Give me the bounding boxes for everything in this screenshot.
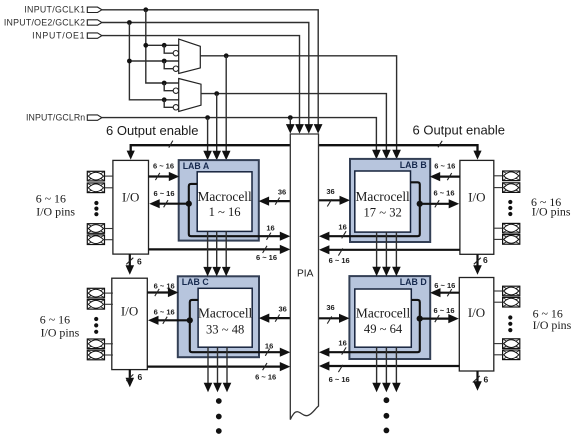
junction mux1 input 2 on OE2 column (127, 59, 132, 64)
tick 6~16 bottom-right I/O to PIA (338, 365, 342, 372)
svg-text:INPUT/GCLRn: INPUT/GCLRn (26, 112, 85, 122)
macrocell box Macrocell 33-48 33 ~ 48 (198, 288, 252, 347)
svg-text:16: 16 (338, 339, 346, 348)
svg-text:I/O: I/O (121, 303, 138, 318)
wire 6~16 right I/O to PIA (328, 249, 460, 251)
I/O block bottom-right (459, 278, 494, 372)
junction mux1 input 1 branch (162, 43, 167, 48)
svg-text:I/O: I/O (468, 305, 485, 320)
svg-text:Macrocell: Macrocell (356, 189, 411, 204)
continuation dots pads bottom-left (94, 317, 98, 321)
wire 6~16 LAB B to right I/O (420, 203, 450, 205)
arrow 6~16 into LAB B (430, 172, 441, 181)
arrow mux1 output into LAB A (222, 151, 231, 161)
arrow 6~16 into LAB D (430, 288, 441, 297)
wire mux1 output to LAB B column (200, 56, 396, 150)
I/O pad top-left 3 (87, 224, 113, 234)
arrow GCLRn into LAB B (372, 150, 381, 160)
svg-text:6 ~ 16: 6 ~ 16 (153, 189, 174, 198)
arrow into LAB D column 2 (382, 267, 391, 277)
svg-text:6 ~ 16: 6 ~ 16 (40, 312, 70, 326)
svg-text:33 ~ 48: 33 ~ 48 (206, 323, 244, 337)
arrow below LAB C column 3 (223, 383, 232, 393)
I/O pad bottom-right 2 (494, 297, 520, 307)
input pin INPUT/OE2/GCLK2 (87, 20, 102, 25)
wire GCLK1 horizontal to PIA column (102, 10, 318, 125)
svg-text:36: 36 (326, 187, 334, 196)
svg-text:LAB A: LAB A (183, 161, 210, 171)
I/O pad top-right 3 (494, 223, 520, 233)
svg-text:I/O pins: I/O pins (533, 318, 572, 332)
arrow 36 into LAB D (339, 314, 350, 323)
arrow 6~16 into LAB C (168, 288, 179, 297)
svg-text:6 ~ 16: 6 ~ 16 (154, 282, 175, 291)
I/O block top-right (460, 160, 494, 254)
svg-text:Macrocell: Macrocell (356, 306, 411, 321)
svg-text:INPUT/OE1: INPUT/OE1 (32, 30, 85, 40)
mux2 inversion bubble 1 (173, 88, 178, 93)
wire 6~16 right I/O to LAB B (438, 176, 460, 178)
tick 6~16 I/O to LAB D (447, 289, 451, 296)
arrow bus into right I/O (473, 151, 481, 160)
svg-text:36: 36 (278, 187, 286, 196)
arrow bottom-left I/O output (126, 378, 135, 388)
tick 16 LAB B (342, 231, 346, 238)
wire bottom-left I/O output 6 (129, 370, 131, 379)
svg-text:36: 36 (326, 303, 334, 312)
junction mux2 input 1 branch (162, 81, 167, 86)
input pin INPUT/GCLRn (87, 115, 102, 120)
tick 6 left chain (126, 258, 133, 265)
wire 36 PIA to LAB D (319, 317, 342, 319)
macrocell box Macrocell 17-32 17 ~ 32 (355, 171, 411, 232)
mux 2 (output enable select) (179, 79, 201, 112)
svg-text:I/O pins: I/O pins (36, 205, 75, 219)
I/O pad bottom-left 3 (87, 339, 113, 349)
arrow 6~16 into right I/O (449, 199, 460, 208)
tick 6~16 bottom-left I/O to PIA (263, 363, 267, 370)
junction on LAB A bracket (186, 201, 192, 207)
arrow 16 LAB B to PIA (319, 232, 330, 241)
svg-text:Macrocell: Macrocell (198, 306, 253, 321)
tick 36 PIA to LAB D (327, 316, 331, 323)
I/O pad top-left 4 (87, 235, 113, 245)
tick 6 bottom-right (473, 376, 480, 383)
wire 36 PIA to LAB B (319, 199, 342, 201)
svg-text:16: 16 (266, 224, 274, 233)
wire 6~16 LAB A to I/O (158, 203, 189, 205)
tick 36 PIA to LAB C (275, 315, 279, 322)
wire 6~16 bottom-left I/O to PIA (147, 366, 281, 368)
svg-text:I/O: I/O (122, 189, 139, 204)
arrow below LAB C column 1 (204, 383, 213, 393)
input pin INPUT/GCLK1 (87, 7, 102, 12)
tick 6~16 LAB D to I/O (435, 315, 439, 322)
tick 16 LAB A (267, 233, 271, 240)
I/O block bottom-left (112, 278, 148, 369)
wire GCLRn branch down to PIA (289, 118, 291, 125)
wire 6~16 I/O to LAB C (147, 291, 169, 293)
wire 36 PIA to LAB C (267, 317, 290, 319)
I/O block top-left (113, 160, 149, 254)
wire LAB B macrocell outputs down to LAB D (376, 232, 378, 267)
I/O pad bottom-right 4 (494, 350, 520, 360)
macrocell box Macrocell 49-64 49 ~ 64 (355, 289, 412, 347)
arrow into bottom-left I/O (126, 265, 135, 275)
svg-text:6 Output enable: 6 Output enable (413, 122, 506, 137)
svg-text:INPUT/GCLK1: INPUT/GCLK1 (24, 5, 85, 15)
tick 6~16 right I/O to LAB B (447, 173, 451, 180)
macrocell bracket LAB C with 16 line to PIA (190, 300, 281, 352)
svg-text:Macrocell: Macrocell (197, 189, 252, 204)
svg-text:6 ~ 16: 6 ~ 16 (36, 192, 66, 206)
svg-text:6: 6 (138, 372, 143, 382)
macrocell bracket LAB A with 16 line to PIA (189, 184, 281, 236)
svg-text:6 Output enable: 6 Output enable (106, 123, 199, 138)
junction OE2 to mux column (127, 20, 132, 25)
macrocell bracket LAB D with 16 line to PIA (328, 300, 420, 352)
arrow 6~16 into LAB A (169, 172, 180, 181)
svg-text:LAB D: LAB D (400, 277, 427, 287)
output enable bus (131, 145, 478, 152)
arrow 16 LAB A to PIA (280, 232, 291, 241)
arrow 6~16 left I/O into PIA (280, 245, 291, 254)
svg-text:LAB B: LAB B (400, 160, 427, 170)
wire mux1 output branch down to LAB A (225, 56, 227, 151)
wire mux1 input 2 (129, 60, 178, 62)
wire LAB A macrocell outputs down to LAB C (207, 231, 209, 267)
input pin INPUT/OE1 (87, 33, 102, 38)
svg-text:PIA: PIA (297, 269, 314, 280)
arrow below LAB D column 3 (392, 383, 401, 393)
continuation dots pads bottom-right (508, 315, 512, 319)
tick 6 right chain (474, 258, 481, 265)
wire mux2 output branch down to LAB A (216, 94, 218, 151)
arrow 16 LAB C to PIA (280, 348, 291, 357)
junction mux1 input 2 branch (162, 59, 167, 64)
svg-text:6 ~ 16: 6 ~ 16 (433, 306, 454, 315)
arrow 6~16 into left I/O (149, 199, 160, 208)
arrow bottom-right I/O output (473, 381, 482, 391)
wire stub to mux1 bubble 2 (164, 61, 173, 69)
arrow into bottom-right I/O (473, 265, 482, 275)
arrow mux1 output into LAB B (392, 150, 401, 160)
svg-text:6: 6 (483, 255, 488, 265)
I/O pad bottom-left 4 (87, 350, 113, 360)
arrow GCLK1 into PIA (314, 124, 323, 134)
PIA interconnect array (290, 134, 318, 420)
tick 6~16 LAB A to I/O (164, 200, 168, 207)
continuation dots pads top-right (508, 200, 512, 204)
arrow into LAB C column 2 (212, 267, 221, 277)
mux 1 (output enable select) (179, 39, 201, 73)
macrocell box Macrocell 1-16 1 ~ 16 (197, 172, 252, 232)
wire 6~16 I/O to LAB D (439, 292, 460, 294)
tick 6~16 right I/O to PIA (338, 248, 342, 255)
junction GCLK1 to mux column (143, 7, 148, 12)
I/O pad bottom-right 3 (494, 339, 520, 349)
svg-text:6 ~ 16: 6 ~ 16 (434, 162, 455, 171)
mux1 inversion bubble 1 (173, 51, 178, 56)
arrow mux2 output into LAB B (382, 150, 391, 160)
svg-text:6 ~ 16: 6 ~ 16 (434, 281, 455, 290)
wire 6~16 I/O to LAB A (149, 175, 171, 177)
svg-text:49 ~ 64: 49 ~ 64 (364, 322, 403, 336)
arrow 16 LAB D to PIA (319, 348, 330, 357)
I/O pad top-left 2 (87, 183, 113, 193)
tick 6 bottom-left (126, 374, 133, 381)
LAB block LAB C (178, 276, 259, 357)
pointer tick left output enable (169, 141, 173, 148)
I/O pad bottom-left 2 (87, 300, 113, 310)
wire GCLK1 vertical to mux inputs (146, 10, 179, 83)
I/O pad top-right 1 (494, 171, 520, 181)
arrow into LAB D column 3 (392, 267, 401, 277)
tick 6~16 LAB B to I/O (435, 200, 439, 207)
junction mux2 input 2 branch (162, 97, 167, 102)
junction GCLRn to PIA (288, 115, 293, 120)
wire stub to mux1 bubble 1 (164, 45, 173, 53)
junction mux1 input 1 on GCLK1 column (143, 43, 148, 48)
svg-text:6 ~ 16: 6 ~ 16 (154, 307, 175, 316)
arrow below LAB D column 1 (372, 383, 381, 393)
pointer tick right output enable (438, 141, 442, 148)
macrocell bracket LAB B with 16 line to PIA (328, 182, 420, 236)
svg-text:6 ~ 16: 6 ~ 16 (153, 162, 174, 171)
junction on LAB B bracket (417, 201, 423, 207)
wire 6~16 LAB D to I/O (420, 318, 450, 320)
arrow 36 into LAB A (259, 197, 270, 206)
tick 6~16 I/O to LAB A (155, 173, 159, 180)
arrow 6~16 bottom-left I/O into PIA (280, 362, 291, 371)
svg-text:16: 16 (338, 223, 346, 232)
I/O pad top-right 2 (494, 183, 520, 193)
arrow into LAB C column 3 (222, 267, 231, 277)
svg-text:I/O pins: I/O pins (41, 326, 80, 340)
wire OE2 vertical to mux inputs (129, 23, 178, 100)
arrow GCLRn into PIA (286, 124, 295, 134)
arrow OE2 into PIA (304, 124, 313, 134)
arrow OE1 into PIA (295, 124, 304, 134)
wire LAB D macrocell outputs downward (376, 347, 378, 383)
arrow 6~16 into bottom-right I/O (448, 314, 459, 323)
svg-text:LAB C: LAB C (182, 277, 210, 287)
arrow below LAB D column 2 (382, 383, 391, 393)
svg-text:6 ~ 16: 6 ~ 16 (329, 256, 350, 265)
wire right I/O chain 6 (476, 254, 478, 266)
wire 6~16 LAB C to I/O (157, 319, 190, 321)
wire 6~16 bottom-right I/O to PIA (328, 365, 459, 367)
tick 6~16 I/O to LAB C (155, 289, 159, 296)
svg-text:INPUT/OE2/GCLK2: INPUT/OE2/GCLK2 (4, 17, 85, 27)
continuation dots below LAB D (384, 397, 390, 403)
wire 36 PIA to LAB A (267, 200, 290, 202)
arrow 36 into LAB C (259, 314, 270, 323)
wire mux2 output to LAB B column (201, 94, 386, 150)
svg-text:6 ~ 16: 6 ~ 16 (329, 375, 350, 384)
arrow 6~16 bottom-right I/O into PIA (319, 361, 330, 370)
tick 16 LAB C (265, 349, 269, 356)
wire GCLRn branch down to LAB A (207, 118, 209, 151)
arrow into LAB C column 1 (203, 267, 212, 277)
junction on LAB D bracket (417, 316, 423, 322)
svg-text:36: 36 (279, 305, 287, 314)
wire OE2/GCLK2 horizontal to PIA column (102, 23, 309, 125)
svg-text:17 ~ 32: 17 ~ 32 (363, 206, 401, 220)
LAB block LAB A (179, 160, 259, 241)
continuation dots pads top-left (94, 201, 98, 205)
arrow bus into left I/O (127, 151, 135, 160)
svg-text:1 ~ 16: 1 ~ 16 (209, 205, 241, 219)
LAB block LAB B (350, 159, 430, 242)
mux2 inversion bubble 2 (173, 105, 178, 110)
svg-text:6 ~ 16: 6 ~ 16 (433, 189, 454, 198)
svg-text:6 ~ 16: 6 ~ 16 (256, 253, 277, 262)
I/O pad top-right 4 (494, 235, 520, 245)
arrow mux2 output into LAB A (212, 151, 221, 161)
arrow below LAB C column 2 (213, 383, 222, 393)
svg-text:I/O: I/O (468, 189, 485, 204)
wire bottom-right I/O output 6 (476, 371, 478, 382)
tick 36 PIA to LAB A (275, 198, 279, 205)
tick 6~16 left I/O to PIA (263, 246, 267, 253)
I/O pad bottom-left 1 (87, 288, 113, 298)
wire GCLRn horizontal to LAB B column (102, 118, 377, 150)
wire OE1 horizontal to PIA column (102, 36, 300, 125)
junction GCLRn to LAB A (205, 115, 210, 120)
tick 6~16 LAB C to I/O (163, 317, 167, 324)
tick 16 LAB D (342, 347, 346, 354)
continuation dots below LAB C (216, 398, 222, 404)
junction mux2 output to LAB A (214, 91, 219, 96)
svg-text:6 ~ 16: 6 ~ 16 (255, 373, 276, 382)
wire 6~16 left I/O to PIA (149, 248, 282, 250)
wire stub to mux2 bubble 1 (164, 83, 173, 91)
wire mux1 input 1 (146, 44, 179, 46)
arrow into LAB D column 1 (372, 267, 381, 277)
arrow GCLRn into LAB A (203, 151, 212, 161)
I/O pad bottom-right 1 (494, 286, 520, 296)
arrow 6~16 into bottom-left I/O (148, 316, 159, 325)
junction on LAB C bracket (187, 317, 193, 323)
wire left I/O chain 6 (129, 254, 131, 266)
LAB block LAB D (349, 276, 430, 359)
svg-text:6: 6 (484, 375, 489, 385)
wire LAB C macrocell outputs downward (207, 347, 209, 383)
svg-text:6: 6 (137, 256, 142, 266)
arrow 6~16 right I/O into PIA (319, 245, 330, 254)
tick 36 PIA to LAB B (327, 199, 331, 206)
mux1 inversion bubble 2 (173, 66, 178, 71)
svg-text:I/O pins: I/O pins (532, 205, 571, 219)
wire stub to mux2 bubble 2 (164, 100, 173, 108)
arrow 36 into LAB B (340, 196, 351, 205)
I/O pad top-left 1 (87, 171, 113, 181)
junction mux1 output to LAB A (224, 53, 229, 58)
